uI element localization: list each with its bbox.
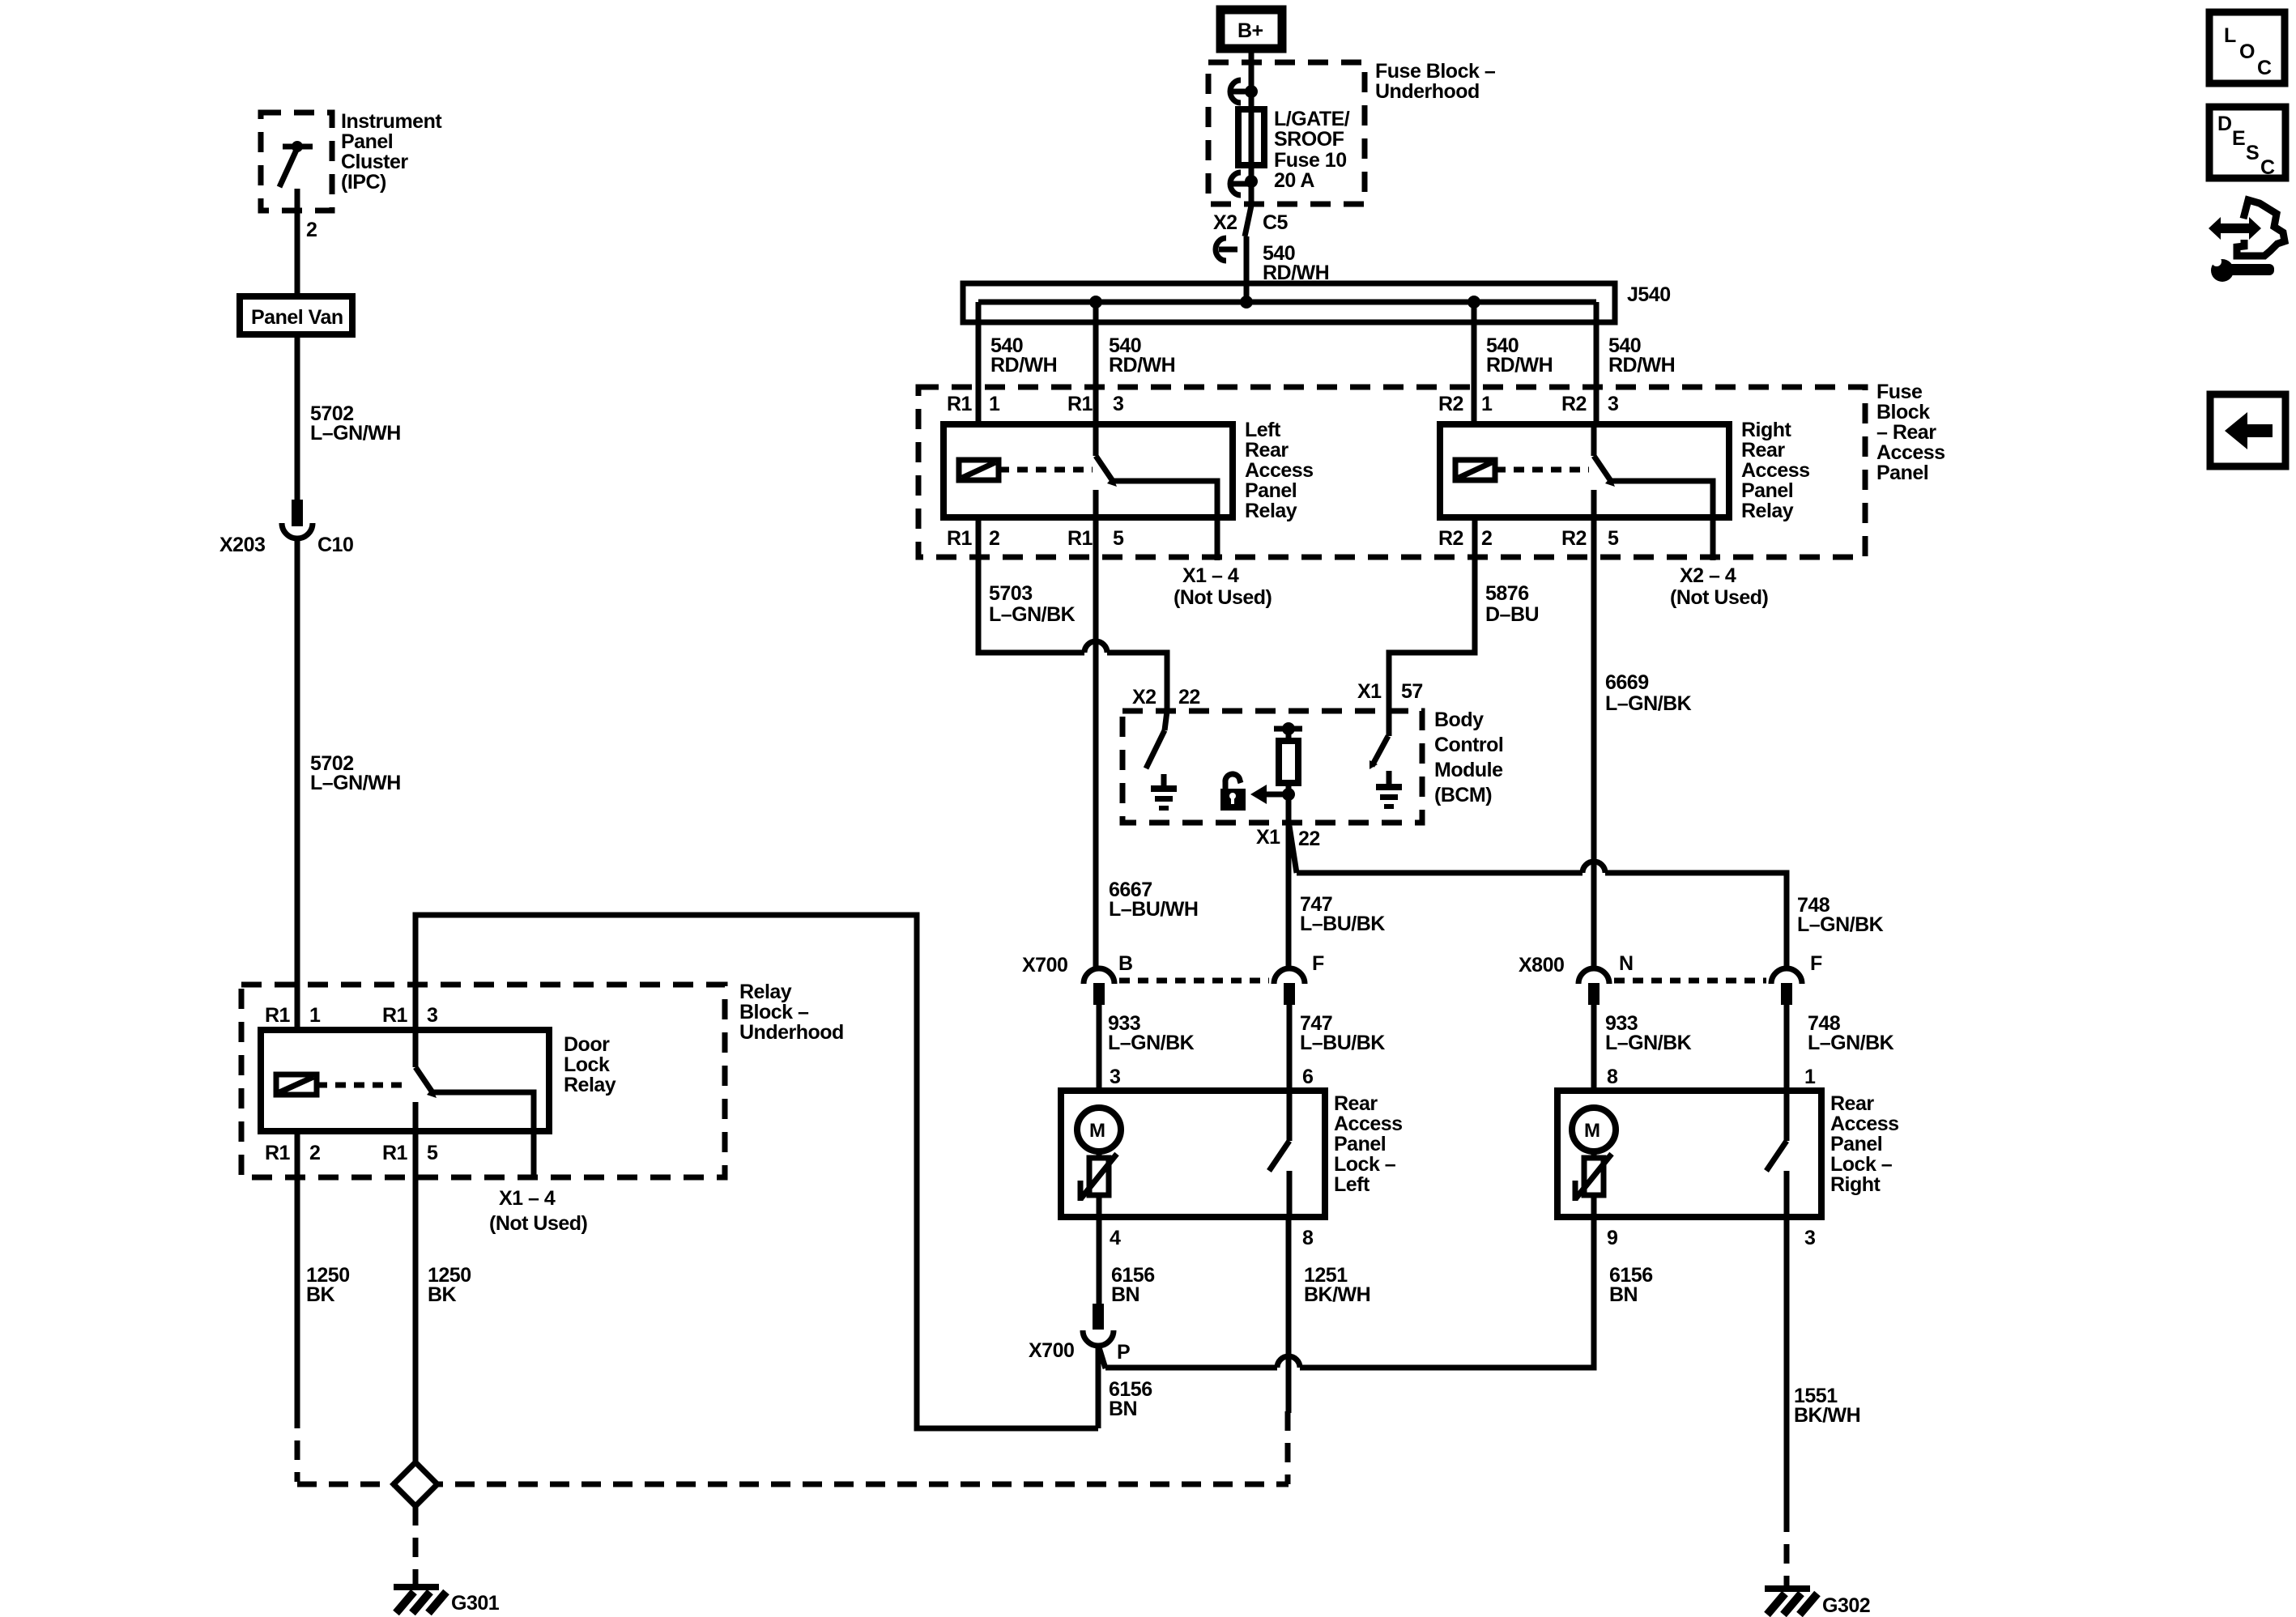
svg-text:BN: BN	[1109, 1398, 1137, 1420]
X1 22 pin labels	[1256, 826, 1320, 850]
svg-text:1: 1	[1804, 1066, 1816, 1088]
svg-text:BN: BN	[1111, 1283, 1139, 1306]
lock left label	[1334, 1092, 1403, 1196]
svg-text:M: M	[1089, 1120, 1105, 1142]
svg-text:R1: R1	[265, 1142, 291, 1164]
svg-text:Right: Right	[1830, 1173, 1881, 1196]
svg-text:57: 57	[1401, 680, 1423, 703]
svg-text:Underhood: Underhood	[1375, 80, 1480, 103]
lock right switch	[1766, 1091, 1787, 1217]
car with arrow and wrench icon	[2209, 200, 2285, 282]
wire label 5703 L-GN/BK	[989, 582, 1076, 626]
svg-text:X203: X203	[219, 534, 265, 556]
right relay coil-switch dashed link	[1495, 467, 1589, 473]
wire branch P slant to 6156 horizontal	[1099, 1217, 1594, 1368]
svg-text:X1: X1	[1256, 826, 1280, 849]
lock right pin labels bottom 9 3	[1607, 1227, 1815, 1249]
junction dots on J540	[1089, 296, 1480, 309]
svg-text:Panel Van: Panel Van	[251, 306, 343, 329]
BCM driver bar and dot	[1274, 722, 1302, 735]
wire 1551 BK/WH from lock right pin 3	[1784, 1217, 1790, 1513]
fuse block rear access panel dashed box	[918, 387, 1865, 557]
svg-text:C: C	[2257, 57, 2272, 79]
door lock relay label	[564, 1033, 616, 1096]
svg-text:Fuse 10: Fuse 10	[1274, 149, 1347, 172]
svg-text:5: 5	[1113, 527, 1124, 550]
lock left pin labels top 3 6	[1110, 1066, 1313, 1088]
svg-text:R1: R1	[1067, 393, 1093, 415]
svg-text:Left: Left	[1334, 1173, 1370, 1196]
svg-text:Rear: Rear	[1245, 439, 1289, 462]
left rear access panel relay box	[944, 424, 1233, 517]
body control module BCM dashed box	[1122, 711, 1422, 823]
connector X700 F	[1274, 968, 1305, 1005]
svg-text:Block: Block	[1876, 401, 1930, 423]
svg-text:L–GN/BK: L–GN/BK	[1108, 1032, 1195, 1054]
splice J540 bus	[963, 283, 1615, 322]
svg-text:X1 – 4: X1 – 4	[1182, 564, 1239, 587]
svg-text:X700: X700	[1022, 954, 1067, 977]
svg-text:L–BU/WH: L–BU/WH	[1109, 898, 1198, 921]
lock right PTC	[1575, 1151, 1612, 1217]
wire labels below X800	[1605, 1012, 1894, 1054]
fuse L/GATE/SROOF Fuse 10 20A	[1238, 109, 1264, 165]
BCM left ground	[1151, 774, 1177, 811]
svg-text:Block –: Block –	[739, 1001, 809, 1023]
svg-text:3: 3	[1608, 393, 1618, 415]
svg-text:R1: R1	[382, 1004, 408, 1027]
fuse block underhood dashed box	[1208, 62, 1365, 204]
svg-text:5: 5	[427, 1142, 438, 1164]
IPC internal switch	[279, 141, 313, 211]
wire 5876 vertical	[1389, 517, 1475, 736]
svg-text:BK/WH: BK/WH	[1304, 1283, 1370, 1306]
wire 6669 vertical (R2-5 down to X800 N)	[1591, 490, 1597, 968]
left relay pin labels top R1 1 R1 3	[947, 393, 1123, 415]
svg-text:L–GN/BK: L–GN/BK	[1605, 1032, 1692, 1054]
left relay switch	[1096, 424, 1217, 560]
DESC icon box	[2209, 107, 2285, 179]
svg-text:F: F	[1810, 952, 1822, 975]
svg-text:Panel: Panel	[1245, 479, 1297, 502]
connector X800 F	[1771, 968, 1802, 1005]
svg-text:(Not Used): (Not Used)	[489, 1212, 588, 1235]
rear access panel lock right box	[1557, 1091, 1821, 1217]
svg-text:RD/WH: RD/WH	[990, 354, 1057, 377]
wire labels below X700	[1108, 1012, 1385, 1054]
svg-text:D–BU: D–BU	[1485, 603, 1539, 626]
door lock relay coil	[276, 1074, 317, 1095]
connector X800 N	[1578, 968, 1609, 1005]
wire 1250 BK right solid (pin5 down)	[413, 1131, 419, 1465]
svg-text:6: 6	[1302, 1066, 1313, 1088]
svg-text:5876: 5876	[1485, 582, 1529, 605]
svg-text:R1: R1	[947, 393, 973, 415]
BCM right switch X1 57	[1370, 736, 1388, 769]
wire 747 from X1 22	[1286, 823, 1292, 968]
svg-text:Fuse: Fuse	[1876, 381, 1923, 403]
wire label 6156 BN below P	[1109, 1378, 1152, 1420]
left relay pin labels bottom R1 2 R1 5	[947, 527, 1124, 550]
svg-text:L/GATE/: L/GATE/	[1274, 108, 1350, 130]
svg-text:RD/WH: RD/WH	[1109, 354, 1175, 377]
svg-text:O: O	[2239, 40, 2255, 63]
ground G302	[1765, 1585, 1870, 1617]
lock left PTC	[1080, 1151, 1117, 1217]
BCM resistor	[1279, 729, 1298, 823]
instrument panel cluster IPC dashed box	[261, 113, 332, 211]
svg-text:L–GN/BK: L–GN/BK	[1605, 692, 1692, 715]
X800 row labels	[1519, 952, 1822, 977]
svg-text:Left: Left	[1245, 419, 1281, 441]
wire 747 lower (X700 F to lock)	[1287, 1005, 1293, 1091]
X800 dashed link	[1614, 978, 1766, 984]
relay block underhood label	[739, 981, 844, 1044]
wire 5702 upper	[295, 334, 300, 500]
svg-text:BK/WH: BK/WH	[1794, 1404, 1860, 1427]
svg-text:L–GN/WH: L–GN/WH	[310, 772, 401, 794]
svg-text:C5: C5	[1263, 211, 1289, 234]
BCM junction dot	[1282, 788, 1295, 801]
svg-text:6669: 6669	[1605, 671, 1649, 694]
svg-text:N: N	[1619, 952, 1634, 975]
svg-text:Right: Right	[1741, 419, 1792, 441]
svg-text:Panel: Panel	[341, 130, 393, 153]
svg-text:Fuse Block –: Fuse Block –	[1375, 60, 1496, 83]
wire IPC to Panel Van	[295, 211, 300, 296]
svg-text:Relay: Relay	[564, 1074, 616, 1096]
wire 1250 BK left solid	[295, 1131, 300, 1409]
back arrow icon box	[2210, 394, 2285, 466]
wire B+ to fuse	[1249, 53, 1254, 109]
svg-text:Lock –: Lock –	[1830, 1153, 1893, 1176]
wire labels 1250 BK	[306, 1264, 471, 1306]
svg-text:(Not Used): (Not Used)	[1670, 586, 1769, 609]
svg-text:(BCM): (BCM)	[1434, 784, 1492, 806]
svg-text:1: 1	[1481, 393, 1493, 415]
svg-text:X2 – 4: X2 – 4	[1680, 564, 1736, 587]
svg-text:M: M	[1584, 1120, 1600, 1142]
svg-text:1: 1	[989, 393, 1000, 415]
connector X700 P	[1029, 1304, 1130, 1364]
svg-text:8: 8	[1607, 1066, 1618, 1088]
svg-text:Instrument: Instrument	[341, 110, 442, 133]
wire label 748 L-GN/BK upper	[1797, 894, 1884, 936]
wire 1250 BK left dashed lower	[295, 1409, 300, 1482]
svg-text:(Not Used): (Not Used)	[1174, 586, 1272, 609]
svg-text:Panel: Panel	[1334, 1133, 1386, 1155]
svg-text:R1: R1	[265, 1004, 291, 1027]
svg-text:C: C	[2260, 156, 2275, 179]
door lock relay switch	[415, 1030, 534, 1180]
svg-text:R2: R2	[1438, 393, 1463, 415]
svg-text:C10: C10	[317, 534, 353, 556]
fuse block underhood label	[1375, 60, 1496, 103]
svg-text:F: F	[1312, 952, 1324, 975]
fuse clip top	[1230, 80, 1258, 103]
svg-text:E: E	[2232, 127, 2245, 150]
svg-text:L–GN/BK: L–GN/BK	[989, 603, 1076, 626]
svg-text:20 A: 20 A	[1274, 169, 1314, 192]
svg-text:G302: G302	[1822, 1594, 1870, 1617]
svg-text:X2: X2	[1132, 686, 1157, 709]
X2-4 not used label right	[1670, 564, 1769, 609]
lock left motor M	[1077, 1108, 1121, 1151]
svg-text:– Rear: – Rear	[1876, 421, 1936, 444]
wire label 5876 D-BU	[1485, 582, 1539, 626]
J540 drop wires	[978, 302, 1596, 424]
svg-text:BK: BK	[428, 1283, 457, 1306]
splice diamond on ground bus	[394, 1462, 437, 1506]
svg-text:D: D	[2217, 113, 2232, 135]
wire label 6667 L-BU/WH	[1109, 879, 1198, 921]
svg-text:Rear: Rear	[1830, 1092, 1874, 1115]
svg-text:(IPC): (IPC)	[341, 171, 386, 194]
X700 dashed link	[1119, 978, 1269, 984]
X1 57 pin labels	[1357, 680, 1423, 703]
lock right pin labels top 8 1	[1607, 1066, 1816, 1088]
wire label 6669 L-GN/BK	[1605, 671, 1692, 715]
wire 933 right (X800 N to lock)	[1591, 1005, 1597, 1091]
svg-text:RD/WH: RD/WH	[1608, 354, 1675, 377]
lock right motor M	[1572, 1108, 1616, 1151]
svg-text:G301: G301	[451, 1592, 500, 1615]
svg-text:Access: Access	[1334, 1113, 1403, 1135]
svg-text:Panel: Panel	[1741, 479, 1793, 502]
svg-text:X800: X800	[1519, 954, 1564, 977]
fuse label	[1274, 108, 1350, 192]
svg-text:3: 3	[1110, 1066, 1120, 1088]
wire label 5702 L-GN/WH lower	[310, 752, 401, 794]
svg-text:5703: 5703	[989, 582, 1033, 605]
svg-text:X2: X2	[1213, 211, 1237, 234]
svg-text:RD/WH: RD/WH	[1486, 354, 1553, 377]
right relay pin labels top R2 1 R2 3	[1438, 393, 1618, 415]
Panel Van box	[240, 296, 352, 334]
lock left switch	[1269, 1091, 1289, 1217]
svg-text:R1: R1	[1067, 527, 1093, 550]
svg-text:Access: Access	[1741, 459, 1810, 482]
svg-text:Cluster: Cluster	[341, 151, 408, 173]
left relay label	[1245, 419, 1314, 522]
relay block underhood dashed box	[241, 985, 725, 1177]
svg-text:S: S	[2246, 142, 2259, 164]
wire feed path door lock relay pin3 to X700 P junction	[415, 915, 1098, 1428]
svg-text:BK: BK	[306, 1283, 335, 1306]
svg-text:9: 9	[1607, 1227, 1617, 1249]
svg-text:Rear: Rear	[1334, 1092, 1378, 1115]
right relay label	[1741, 419, 1810, 522]
svg-text:BN: BN	[1609, 1283, 1638, 1306]
left relay coil	[959, 460, 999, 480]
svg-text:Control: Control	[1434, 734, 1503, 756]
BCM left switch X2 22	[1146, 711, 1167, 768]
door lock relay coil-switch dashed link	[317, 1083, 410, 1088]
connector X700 B	[1084, 968, 1114, 1005]
svg-text:Module: Module	[1434, 759, 1503, 781]
svg-text:22: 22	[1298, 828, 1320, 850]
lock left pin labels bottom 4 8	[1110, 1227, 1314, 1249]
svg-text:B+: B+	[1237, 19, 1263, 42]
svg-text:Access: Access	[1876, 441, 1945, 464]
wire 5703 horizontal with hop	[1084, 641, 1167, 711]
svg-text:Underhood: Underhood	[739, 1021, 844, 1044]
X1-4 not used label under door lock relay	[489, 1187, 588, 1235]
svg-text:Panel: Panel	[1830, 1133, 1882, 1155]
wire label 6156 BN left	[1111, 1264, 1155, 1306]
svg-text:B: B	[1118, 952, 1133, 975]
X1-4 not used label left	[1174, 564, 1272, 609]
svg-text:L–GN/BK: L–GN/BK	[1808, 1032, 1894, 1054]
svg-text:2: 2	[306, 219, 317, 241]
svg-text:R2: R2	[1561, 393, 1587, 415]
right rear access panel relay box	[1440, 424, 1729, 517]
svg-text:8: 8	[1302, 1227, 1314, 1249]
wire labels 540 RD/WH x4	[990, 334, 1675, 377]
wire 1251 dashed lower	[1285, 1411, 1291, 1484]
IPC label text	[341, 110, 442, 194]
X700 row labels	[1022, 952, 1324, 977]
battery B+ box	[1220, 10, 1282, 49]
wire to G301 dashed	[413, 1506, 419, 1584]
fuse block rear access panel label	[1876, 381, 1945, 484]
svg-text:L–BU/BK: L–BU/BK	[1300, 913, 1385, 935]
svg-text:L–GN/BK: L–GN/BK	[1797, 913, 1884, 936]
wire 540 RD/WH from fuse	[1244, 236, 1250, 302]
svg-text:R2: R2	[1561, 527, 1587, 550]
BCM label	[1434, 709, 1503, 806]
wire 1551 dashed lower	[1784, 1513, 1790, 1585]
svg-text:3: 3	[427, 1004, 437, 1027]
wire 748 lower (X800 F to lock)	[1784, 1005, 1790, 1091]
svg-text:Panel: Panel	[1876, 462, 1928, 484]
fuse clip bottom	[1230, 172, 1258, 195]
X2 22 pin labels	[1132, 686, 1200, 709]
svg-text:L–GN/WH: L–GN/WH	[310, 422, 401, 445]
rear access panel lock left box	[1061, 1091, 1325, 1217]
svg-text:X1 – 4: X1 – 4	[499, 1187, 556, 1210]
right relay coil	[1455, 460, 1495, 480]
svg-text:2: 2	[1481, 527, 1492, 550]
lock right label	[1830, 1092, 1899, 1196]
svg-text:SROOF: SROOF	[1274, 128, 1344, 151]
svg-text:Body: Body	[1434, 709, 1484, 731]
svg-text:3: 3	[1804, 1227, 1815, 1249]
svg-text:3: 3	[1113, 393, 1123, 415]
LOC icon box	[2209, 12, 2285, 83]
wire 5702 lower	[295, 538, 300, 1030]
svg-text:Lock: Lock	[564, 1053, 610, 1076]
svg-text:L–BU/BK: L–BU/BK	[1300, 1032, 1385, 1054]
svg-text:4: 4	[1110, 1227, 1121, 1249]
wire label 540 RD/WH main	[1263, 242, 1329, 284]
svg-text:Access: Access	[1245, 459, 1314, 482]
right relay switch	[1594, 424, 1713, 560]
svg-text:Relay: Relay	[1741, 500, 1794, 522]
wire label 1551 BK/WH	[1794, 1385, 1860, 1427]
wire 1251 BK/WH from lock left pin 8	[1286, 1217, 1292, 1413]
door lock relay box	[261, 1030, 549, 1131]
connector X203 C10	[219, 500, 353, 556]
svg-text:Lock –: Lock –	[1334, 1153, 1396, 1176]
svg-text:22: 22	[1178, 686, 1200, 709]
svg-text:1: 1	[309, 1004, 321, 1027]
svg-text:P: P	[1117, 1341, 1130, 1364]
door lock relay pin labels top R1 1 R1 3	[265, 1004, 437, 1027]
svg-text:X700: X700	[1029, 1339, 1074, 1362]
door lock relay pin labels bottom R1 2 R1 5	[265, 1142, 438, 1164]
svg-text:Rear: Rear	[1741, 439, 1785, 462]
svg-text:R2: R2	[1438, 527, 1463, 550]
wire 6156 BN from lock left pin 4	[1097, 1217, 1102, 1305]
wire label 5702 L-GN/WH upper	[310, 402, 401, 445]
svg-text:R1: R1	[382, 1142, 408, 1164]
svg-text:R1: R1	[947, 527, 973, 550]
svg-text:2: 2	[989, 527, 999, 550]
svg-text:J540: J540	[1627, 283, 1671, 306]
svg-text:2: 2	[309, 1142, 320, 1164]
svg-text:X1: X1	[1357, 680, 1382, 703]
svg-text:Access: Access	[1830, 1113, 1899, 1135]
wire label 747 L-BU/BK upper	[1300, 893, 1385, 935]
wire label 6156 BN right	[1609, 1264, 1653, 1306]
svg-text:Relay: Relay	[739, 981, 792, 1003]
BCM padlock icon	[1220, 774, 1246, 811]
wire 6667 vertical (R1-5 down to X700 B)	[1093, 490, 1099, 968]
wire 933 left (X700 B to lock)	[1097, 1005, 1102, 1091]
svg-text:L: L	[2224, 24, 2236, 47]
wire label 1251 BK/WH	[1304, 1264, 1370, 1306]
wire 5703 vertical	[978, 517, 1084, 653]
connector X2 C5 slant	[1216, 165, 1251, 261]
left relay coil-switch dashed link	[999, 467, 1093, 473]
svg-text:5: 5	[1608, 527, 1619, 550]
BCM right ground	[1376, 771, 1402, 809]
ground G301	[394, 1584, 500, 1615]
right relay pin labels bottom R2 2 R2 5	[1438, 527, 1619, 550]
svg-text:Relay: Relay	[1245, 500, 1297, 522]
X2 C5 labels	[1213, 211, 1289, 234]
wire branch X1 22 slant to 748	[1289, 826, 1787, 968]
svg-text:Door: Door	[564, 1033, 610, 1056]
dashed ground bus horizontal	[297, 1482, 1289, 1487]
wire below X700 P	[1096, 1346, 1101, 1428]
BCM unlock arrow	[1250, 785, 1289, 804]
